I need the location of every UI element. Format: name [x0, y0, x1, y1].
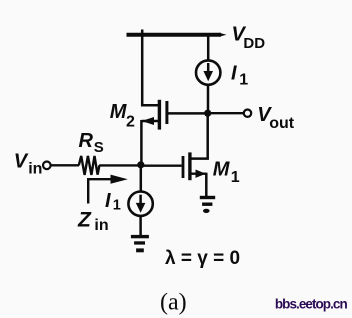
svg-text:I: I: [105, 190, 111, 212]
svg-text:in: in: [94, 217, 108, 234]
transistor M1 gate bar: [182, 156, 185, 178]
svg-text:M: M: [213, 158, 231, 180]
terminal Vout: [244, 110, 251, 117]
svg-text:out: out: [269, 115, 295, 132]
wire M1 source to ground: [205, 173, 208, 197]
svg-text:2: 2: [126, 114, 135, 131]
wire VDD rail: [127, 33, 222, 37]
svg-text:DD: DD: [243, 35, 265, 52]
wire RS to node A: [99, 164, 140, 166]
ground at I1 bottom: [131, 235, 149, 252]
svg-text:in: in: [28, 161, 42, 178]
wire I1 top to node Vout: [207, 85, 210, 113]
svg-text:Z: Z: [77, 208, 92, 231]
wire VDD to current source I1 top: [207, 33, 210, 61]
svg-text:V: V: [14, 151, 29, 173]
resistor RS: [79, 156, 100, 175]
svg-text:I: I: [231, 63, 237, 85]
wire node A to M1 gate: [140, 164, 182, 166]
ground at M1 source: [200, 196, 215, 213]
svg-text:(a): (a): [160, 289, 187, 315]
current source I1 (top): [196, 60, 220, 84]
transistor M1 source arrow: [192, 172, 207, 174]
wire node A to current source I1 bottom: [140, 165, 143, 192]
svg-text:S: S: [94, 139, 104, 156]
wire M2 drain to VDD: [142, 30, 159, 106]
transistor M2 channel bar: [158, 100, 161, 130]
wire node Vout to M1 drain: [191, 113, 207, 158]
transistor M2 source arrow: [142, 120, 158, 122]
wire Vin to resistor RS: [51, 164, 79, 166]
transistor M2 gate bar: [165, 101, 168, 124]
impedance arrow Zin: [88, 179, 111, 203]
node A junction: [137, 161, 144, 168]
svg-text:λ = γ = 0: λ = γ = 0: [165, 248, 240, 269]
svg-text:1: 1: [113, 198, 121, 214]
wire I1 bottom to ground: [139, 216, 142, 237]
wire node Vout to output terminal: [208, 112, 244, 114]
wire M2 source to node A: [140, 120, 143, 166]
svg-text:bbs.eetop.cn: bbs.eetop.cn: [275, 296, 348, 311]
node Vout junction: [204, 110, 211, 117]
svg-text:R: R: [79, 130, 94, 152]
transistor M1 channel bar: [188, 152, 191, 180]
svg-text:1: 1: [239, 72, 248, 89]
current source I1 (bottom): [128, 192, 152, 216]
wire M2 gate to node Vout: [168, 112, 208, 115]
terminal Vin: [43, 162, 51, 170]
svg-text:1: 1: [231, 169, 240, 186]
